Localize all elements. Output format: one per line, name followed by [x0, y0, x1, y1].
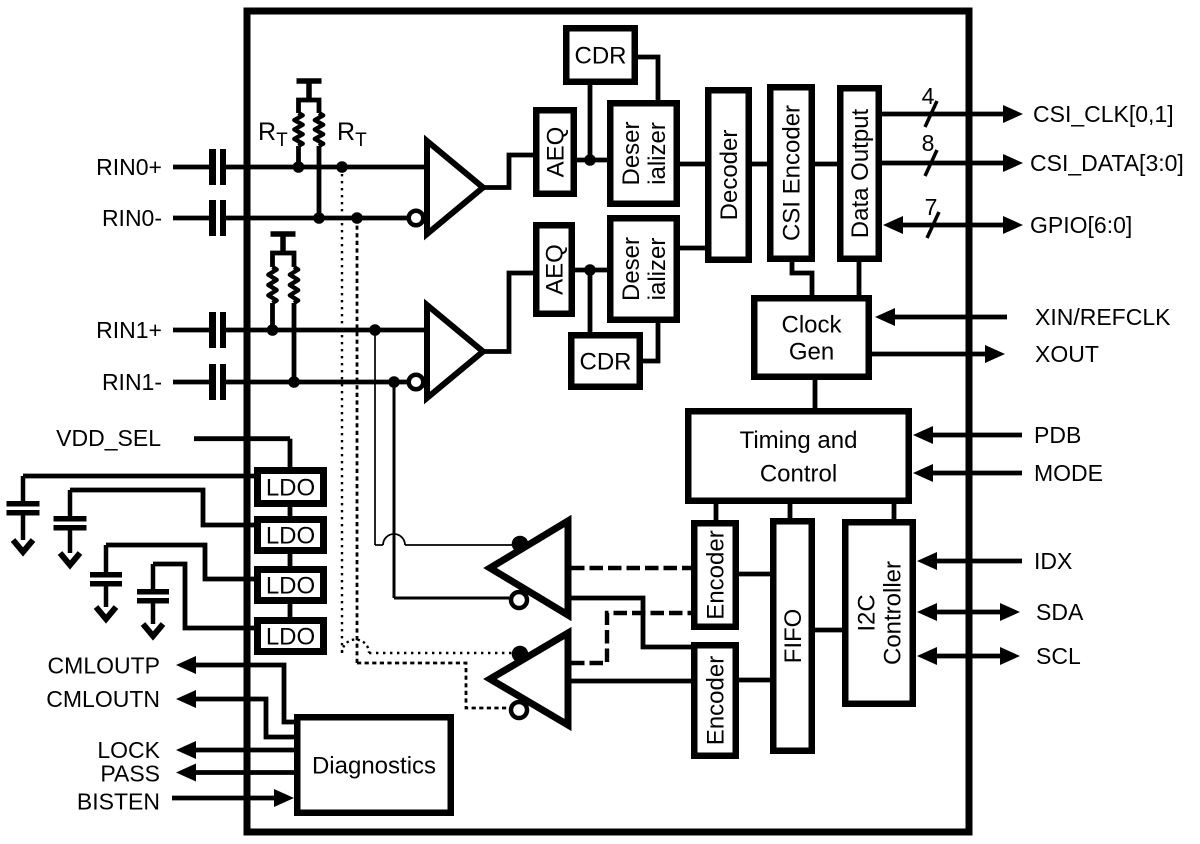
svg-text:RIN1-: RIN1-: [102, 369, 162, 395]
svg-text:Control: Control: [760, 460, 837, 487]
svg-text:IDX: IDX: [1034, 548, 1072, 574]
svg-text:SDA: SDA: [1036, 599, 1084, 625]
svg-text:CDR: CDR: [575, 43, 627, 70]
svg-text:AEQ: AEQ: [542, 244, 569, 295]
svg-text:AEQ: AEQ: [543, 127, 570, 178]
svg-text:LDO: LDO: [266, 573, 315, 600]
svg-text:CMLOUTN: CMLOUTN: [46, 686, 160, 712]
svg-text:Decoder: Decoder: [716, 130, 743, 221]
svg-text:4: 4: [922, 83, 935, 109]
svg-text:Encoder: Encoder: [703, 656, 730, 745]
svg-text:PASS: PASS: [100, 761, 160, 787]
svg-text:Diagnostics: Diagnostics: [312, 753, 436, 780]
svg-text:CSI Encoder: CSI Encoder: [779, 105, 806, 241]
svg-text:VDD_SEL: VDD_SEL: [56, 425, 161, 451]
svg-text:LDO: LDO: [266, 624, 315, 651]
svg-text:PDB: PDB: [1034, 422, 1081, 448]
svg-text:RIN1+: RIN1+: [96, 317, 162, 343]
svg-text:FIFO: FIFO: [780, 609, 807, 664]
svg-text:BISTEN: BISTEN: [77, 789, 160, 815]
svg-text:Timing and: Timing and: [740, 427, 858, 454]
svg-text:XIN/REFCLK: XIN/REFCLK: [1035, 304, 1171, 330]
svg-text:CDR: CDR: [580, 349, 632, 376]
svg-text:SCL: SCL: [1036, 643, 1081, 669]
svg-text:Deser: Deser: [618, 121, 645, 185]
svg-text:Clock: Clock: [781, 312, 842, 339]
svg-text:Gen: Gen: [789, 339, 834, 366]
svg-text:CMLOUTP: CMLOUTP: [48, 653, 160, 679]
svg-text:RIN0-: RIN0-: [102, 205, 162, 231]
svg-text:Data Output: Data Output: [847, 108, 874, 238]
svg-text:RIN0+: RIN0+: [96, 154, 162, 180]
svg-text:LDO: LDO: [266, 475, 315, 502]
svg-text:LDO: LDO: [266, 523, 315, 550]
svg-text:MODE: MODE: [1034, 460, 1103, 486]
svg-text:LOCK: LOCK: [97, 737, 160, 763]
svg-text:ializer: ializer: [644, 238, 671, 301]
svg-text:Encoder: Encoder: [703, 530, 730, 619]
svg-text:7: 7: [925, 194, 938, 220]
svg-text:CSI_CLK[0,1]: CSI_CLK[0,1]: [1033, 101, 1174, 127]
svg-text:Deser: Deser: [618, 237, 645, 301]
svg-text:CSI_DATA[3:0]: CSI_DATA[3:0]: [1030, 150, 1184, 176]
svg-text:ializer: ializer: [644, 122, 671, 185]
svg-text:GPIO[6:0]: GPIO[6:0]: [1030, 212, 1132, 238]
svg-text:I2C: I2C: [854, 594, 881, 631]
svg-text:Controller: Controller: [880, 561, 907, 665]
svg-text:8: 8: [922, 130, 935, 156]
svg-text:XOUT: XOUT: [1035, 341, 1099, 367]
